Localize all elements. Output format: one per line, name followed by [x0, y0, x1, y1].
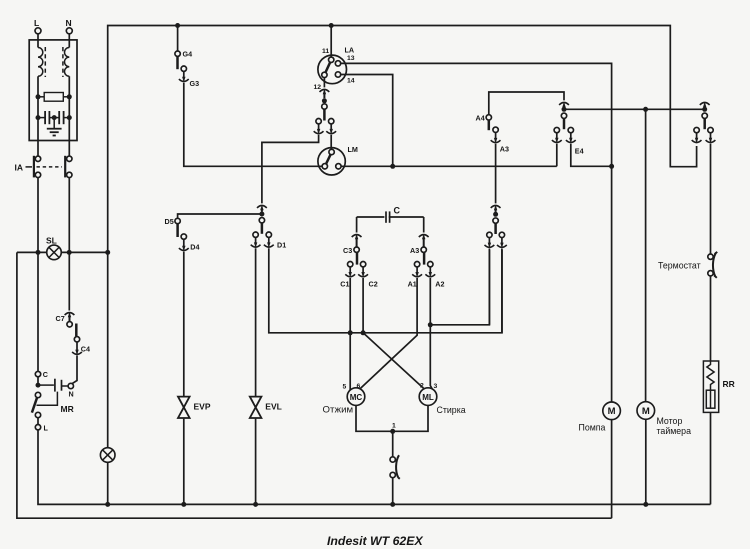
contact A4 — [486, 115, 491, 120]
node: A2 branch junction — [428, 322, 433, 327]
node: pin14 / LM line junction — [390, 164, 395, 169]
svg-text:Indesit WT 62EX: Indesit WT 62EX — [327, 534, 423, 548]
wire: A-group right leg — [501, 249, 503, 333]
svg-text:LA: LA — [345, 46, 355, 55]
contact L (MR output) — [35, 425, 40, 430]
solenoid valve EVP — [178, 397, 190, 418]
svg-text:C7: C7 — [56, 314, 65, 323]
wire: filter outputs to IA — [37, 141, 39, 157]
svg-text:D1: D1 — [277, 241, 286, 250]
node: timer motor junction — [643, 107, 648, 112]
ground — [53, 118, 55, 129]
contacts A1 A2 — [414, 262, 419, 267]
svg-text:Помпа: Помпа — [579, 423, 606, 433]
svg-text:Термостат: Термостат — [658, 261, 701, 271]
wire: G3 to LM line — [184, 83, 322, 167]
wire: left contact to D-connector column — [262, 135, 319, 204]
wire: N rail from SL line to C7 — [68, 252, 70, 310]
node: EVL / bottom rail — [253, 502, 258, 507]
wire: RR to bottom rail — [710, 412, 712, 504]
connector C7 — [65, 312, 75, 318]
wire: E4 left leg to LM line — [556, 144, 558, 167]
node: SL line / N rail — [67, 250, 72, 255]
wire: MR rail from SL line — [37, 252, 39, 371]
svg-text:A3: A3 — [410, 246, 419, 255]
wire: thermostat to RR — [710, 276, 712, 361]
node: EVP / bottom rail — [181, 502, 186, 507]
wire: right contact to LM — [330, 135, 332, 150]
wire: second return line from SL to pump — [17, 252, 612, 518]
bracket A4-E4 — [489, 92, 564, 115]
LM wiper blade — [326, 154, 331, 164]
contact G3 — [181, 66, 186, 71]
contact pair D1 — [253, 232, 258, 237]
capacitor C — [357, 216, 385, 218]
heating element RR — [703, 361, 718, 412]
contacts C1 C2 — [348, 262, 353, 267]
svg-text:A1: A1 — [408, 280, 417, 289]
MR moving blade — [35, 392, 40, 397]
contact pair E4 — [554, 127, 559, 132]
node 1 — [390, 429, 395, 434]
svg-text:1: 1 — [392, 423, 396, 430]
svg-text:6: 6 — [357, 383, 361, 390]
wire: D4 to valve EVP — [183, 252, 185, 398]
thermostat connector chain — [700, 102, 710, 108]
node: C1 / motor bus junction — [348, 330, 353, 335]
wire: filter internal rails — [37, 76, 39, 140]
wire: timer motor to bottom rail — [645, 419, 647, 504]
contact C4 — [74, 337, 79, 342]
inductor filter L-side — [38, 48, 43, 77]
svg-text:C3: C3 — [343, 246, 352, 255]
node: junction top bus / G4 branch — [175, 23, 180, 28]
LM left pin — [322, 164, 327, 169]
connector A3 group (capacitor side) — [423, 217, 425, 233]
wire: A1 diagonal to MC terminal 6 — [360, 278, 417, 389]
motor cam switch LM — [318, 148, 345, 175]
wire: IA poles to SL line — [37, 178, 39, 253]
svg-text:C4: C4 — [81, 345, 90, 354]
svg-text:D5: D5 — [165, 217, 174, 226]
svg-text:Отжим: Отжим — [323, 405, 354, 416]
wire: A2 down to ML terminal 3 — [430, 278, 432, 389]
wire: third rail to lamp — [107, 252, 109, 447]
pin 14 — [335, 72, 340, 77]
node: timer motor / bottom rail — [643, 502, 648, 507]
pin 11 — [329, 57, 334, 62]
pin 13 — [335, 61, 340, 66]
node: protector / bottom rail — [390, 502, 395, 507]
node: lamp rail / bottom rail — [105, 502, 110, 507]
motor winding MC (spin) — [347, 388, 365, 406]
svg-text:EVL: EVL — [265, 402, 282, 412]
svg-text:5: 5 — [343, 384, 347, 391]
relay MR — [35, 371, 40, 376]
LM top pin — [329, 149, 334, 154]
wire: LA pin13 to right rail and pump — [341, 63, 612, 402]
svg-text:2: 2 — [420, 383, 424, 390]
svg-text:C1: C1 — [340, 280, 349, 289]
svg-text:3: 3 — [434, 383, 438, 390]
wire: MC bottom to node 1 — [356, 405, 393, 431]
IA pole N — [67, 156, 72, 161]
svg-text:RR: RR — [723, 379, 735, 389]
LM right pin — [336, 164, 341, 169]
wire: E4 right leg to pump rail — [571, 144, 612, 167]
wire: A2 branch to A3 connector left leg — [430, 250, 489, 325]
wire: C1 to MC terminal 5 — [349, 278, 351, 390]
wire: lamp to bottom rail — [107, 462, 109, 504]
wire: SL line — [17, 251, 47, 253]
connector C3 group — [356, 217, 358, 233]
thermostat switch — [708, 254, 713, 259]
wire: EVP to bottom rail — [183, 419, 185, 505]
svg-text:N: N — [69, 390, 74, 399]
capacitor (filter, L side) — [38, 117, 45, 119]
wire: C4 to MR coil N terminal — [71, 355, 77, 384]
svg-text:ML: ML — [422, 393, 434, 402]
wire: L terminal into filter — [37, 34, 39, 48]
node: SL line / MR rail — [36, 250, 41, 255]
svg-text:L: L — [34, 18, 39, 28]
contact G4 — [175, 51, 180, 56]
svg-text:SL: SL — [46, 236, 57, 246]
wire: protector to bottom rail — [392, 478, 394, 505]
contact D4 — [181, 234, 186, 239]
contact A3 (program side) — [493, 127, 498, 132]
lamp (door) — [100, 448, 115, 463]
LA wiper blade — [325, 62, 330, 72]
A-connector chain — [491, 205, 501, 211]
timer cam switch LA — [318, 55, 347, 84]
bottom rail — [38, 430, 711, 505]
timer motor M — [645, 109, 647, 401]
D-connector chain — [257, 205, 267, 211]
wire: LA pin 11 feed — [330, 26, 332, 58]
IA pole L — [35, 156, 40, 161]
connector chain below LA pin 12 — [323, 78, 325, 88]
wire: A-group left leg — [488, 249, 490, 325]
wire: C2 diagonal to ML terminal 2 — [363, 278, 424, 389]
svg-text:G4: G4 — [183, 50, 193, 59]
wire: LM right to E4 left leg — [341, 165, 557, 167]
wire: N terminal into filter — [68, 34, 70, 48]
svg-text:13: 13 — [347, 55, 355, 62]
contact pair under A3 — [487, 232, 492, 237]
pump motor M — [603, 402, 621, 420]
svg-text:A3: A3 — [500, 145, 509, 154]
wire: D1 left to valve EVL — [255, 248, 257, 397]
svg-text:A4: A4 — [476, 114, 485, 123]
wire: ML bottom to node 1 — [393, 405, 428, 431]
svg-text:EVP: EVP — [194, 402, 211, 412]
node: junction top bus / LA branch — [329, 23, 334, 28]
resistor (filter) — [44, 93, 63, 102]
svg-text:G3: G3 — [190, 79, 200, 88]
svg-text:C: C — [394, 206, 401, 216]
wire: D5 riser to D-connector — [178, 214, 262, 218]
svg-text:L: L — [44, 424, 49, 433]
svg-text:C2: C2 — [369, 280, 378, 289]
thermal protector — [390, 457, 395, 462]
node: SL line / third rail — [105, 250, 110, 255]
wire: E4 bus to thermostat group — [564, 108, 705, 110]
svg-text:A2: A2 — [435, 280, 444, 289]
svg-text:таймера: таймера — [657, 426, 692, 436]
wire: pump to second line — [611, 420, 613, 519]
svg-text:D4: D4 — [190, 243, 199, 252]
svg-text:Мотор: Мотор — [657, 416, 683, 426]
inductor filter N-side — [65, 48, 70, 77]
svg-text:C: C — [43, 370, 48, 379]
solenoid valve EVL — [250, 397, 262, 418]
contact pair thermostat feed — [694, 127, 699, 132]
svg-text:14: 14 — [347, 78, 355, 85]
node: C2 / motor bus junction — [361, 330, 366, 335]
svg-text:E4: E4 — [575, 147, 584, 156]
svg-text:Стирка: Стирка — [437, 405, 466, 415]
motor winding ML (wash) — [419, 388, 437, 406]
wire: EVL to bottom rail — [255, 419, 257, 505]
svg-text:12: 12 — [314, 84, 322, 91]
line filter box — [29, 40, 77, 141]
MR coil — [38, 384, 54, 386]
E4 connector chain — [559, 102, 569, 108]
svg-text:IA: IA — [15, 162, 24, 172]
node: pin13 rail / E4 line junction — [609, 164, 614, 169]
wire: right leg down to thermostat — [710, 144, 712, 254]
svg-text:11: 11 — [322, 48, 329, 55]
svg-text:N: N — [66, 18, 72, 28]
wire: top supply bus — [108, 26, 697, 253]
svg-text:LM: LM — [348, 145, 358, 154]
svg-text:MC: MC — [350, 393, 363, 402]
wire: A3 down to connector chain — [495, 144, 497, 204]
wire: G4 branch from top bus — [177, 26, 179, 52]
contact D5 — [175, 218, 180, 223]
MR armature link — [37, 392, 58, 406]
contact pair under pin 12 — [316, 119, 321, 124]
wire: node 1 to thermal protector — [392, 431, 394, 457]
capacitor (filter, N side) — [54, 117, 59, 119]
svg-text:MR: MR — [61, 404, 74, 414]
pin 12 — [322, 72, 327, 77]
wire: D1 right to motor bus — [269, 248, 502, 332]
wire: LA pin14 down to LM line — [341, 75, 393, 167]
